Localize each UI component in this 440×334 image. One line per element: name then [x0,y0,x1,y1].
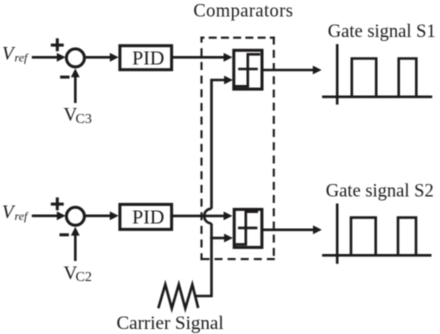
summing junction 1 [66,49,84,67]
label VC2 [64,263,92,285]
S2 pulse 2 [398,218,416,256]
comparator U2 hysteresis symbol [235,212,258,245]
summing junction 2 [66,207,84,225]
wire hop over PID2 line [204,209,211,224]
wire PID 2 to comparator 2 [173,212,233,221]
wire Vref to summer 1 [32,53,66,62]
plus sign (summer 1) [51,38,64,51]
label Vref (loop 1) [2,44,29,65]
S1 plot vertical axis [336,44,339,105]
svg-text:Comparators: Comparators [193,1,293,21]
wire carrier bus to comparator U1 [212,80,227,209]
S2 pulse 1 [351,218,376,256]
svg-text:PID: PID [132,47,164,69]
PID block 1 [120,46,172,70]
wire comparator U2 output to S2 plot [262,225,322,234]
comparator U2 box [234,209,262,247]
comparator U1 hysteresis symbol [235,54,260,86]
svg-text:PID: PID [132,207,164,229]
wire VC2 feedback arrow [71,227,80,261]
PID block 2 [120,204,172,229]
svg-text:ref: ref [15,51,30,65]
wire carrier bus below hop [210,223,213,239]
svg-text:C3: C3 [76,112,92,127]
wire VC3 feedback arrow [71,68,80,103]
svg-text:Gate signal S2: Gate signal S2 [326,181,434,201]
svg-text:C2: C2 [76,270,92,285]
wire PID 1 to comparator 1 [173,53,233,62]
wire comparator U1 output to S1 plot [262,66,321,75]
label Vref (loop 2) [2,202,29,223]
S2 plot vertical axis [336,204,339,264]
comparator U1 box [234,50,262,89]
wire carrier branch to comparator U2 [210,234,233,243]
dashed box (comparators) [200,37,274,261]
S2 plot horizontal axis [322,254,431,257]
minus sign (summer 2) [60,233,69,236]
minus sign (summer 1) [60,76,69,79]
svg-text:ref: ref [15,209,30,223]
wire carrier to vertical bus [195,239,211,296]
plus sign (summer 2) [51,197,64,210]
svg-text:Carrier Signal: Carrier Signal [117,313,224,334]
S1 plot horizontal axis [322,96,432,99]
carrier signal triangle wave [158,284,198,308]
wire summer 1 to PID 1 [85,53,119,62]
S1 pulse 2 [399,59,417,97]
wire Vref to summer 2 [32,211,66,220]
svg-text:Gate signal S1: Gate signal S1 [328,22,436,42]
S1 pulse 1 [352,59,376,97]
label VC3 [64,105,92,127]
wire summer 2 to PID 2 [85,211,119,220]
